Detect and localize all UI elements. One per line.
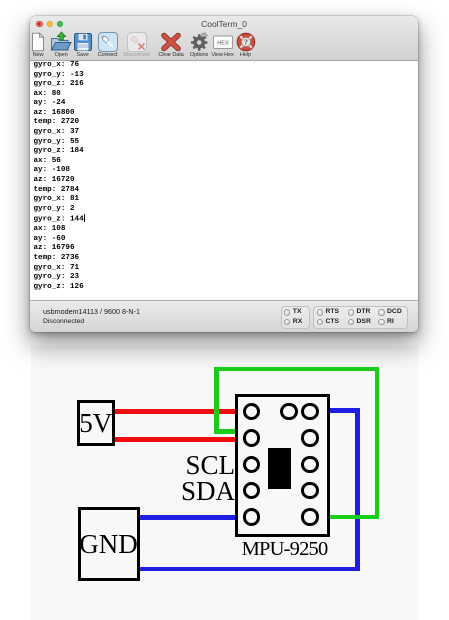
label MPU-9250 [235, 539, 335, 560]
pin left 3 [243, 456, 260, 473]
wire blue bottom horizontal (GND return) [136, 567, 360, 572]
node 5V supply box [77, 400, 115, 446]
svg-text:?: ? [244, 37, 248, 46]
pin top extra [280, 403, 297, 420]
toolbar icons placeholder [27, 31, 49, 53]
wire blue vertical (right of chip) [355, 408, 360, 571]
wire 5V red 2 (to pin row2) [112, 437, 235, 442]
wire blue GND to chip pin row5 [136, 515, 235, 520]
wire green left vertical [214, 367, 219, 434]
pin right 4 [301, 482, 318, 499]
traffic lights [36, 21, 43, 28]
chip die (black rectangle) [268, 448, 292, 489]
pin left 2 [243, 429, 260, 446]
LED group RTS..RI [313, 306, 408, 329]
label SDA [135, 478, 235, 505]
pin left 4 [243, 482, 260, 499]
pin right 2 [301, 429, 318, 446]
IC U1 MPU-9250 breakout body [235, 394, 330, 538]
pin right 5 [301, 508, 318, 525]
wire 5V red 1 (to pin VCC row1) [112, 409, 235, 414]
wire green into chip right row5 [327, 515, 379, 520]
label GND [78, 531, 140, 558]
wire green right vertical [375, 367, 380, 520]
pin right 1 [301, 403, 318, 420]
diagram background sheet [31, 346, 418, 620]
label 5V [77, 410, 115, 437]
pin left 1 [243, 403, 260, 420]
wire blue from top-right pin, horizontal [327, 408, 359, 413]
label SCL [135, 452, 235, 479]
node GND box [78, 507, 140, 582]
svg-text:HEX: HEX [217, 40, 229, 46]
LED group TX/RX [281, 306, 310, 329]
wire green top horizontal [214, 367, 379, 372]
pin right 3 [301, 456, 318, 473]
pin left 5 [243, 508, 260, 525]
wire green into chip left (between red wires) [214, 429, 235, 434]
